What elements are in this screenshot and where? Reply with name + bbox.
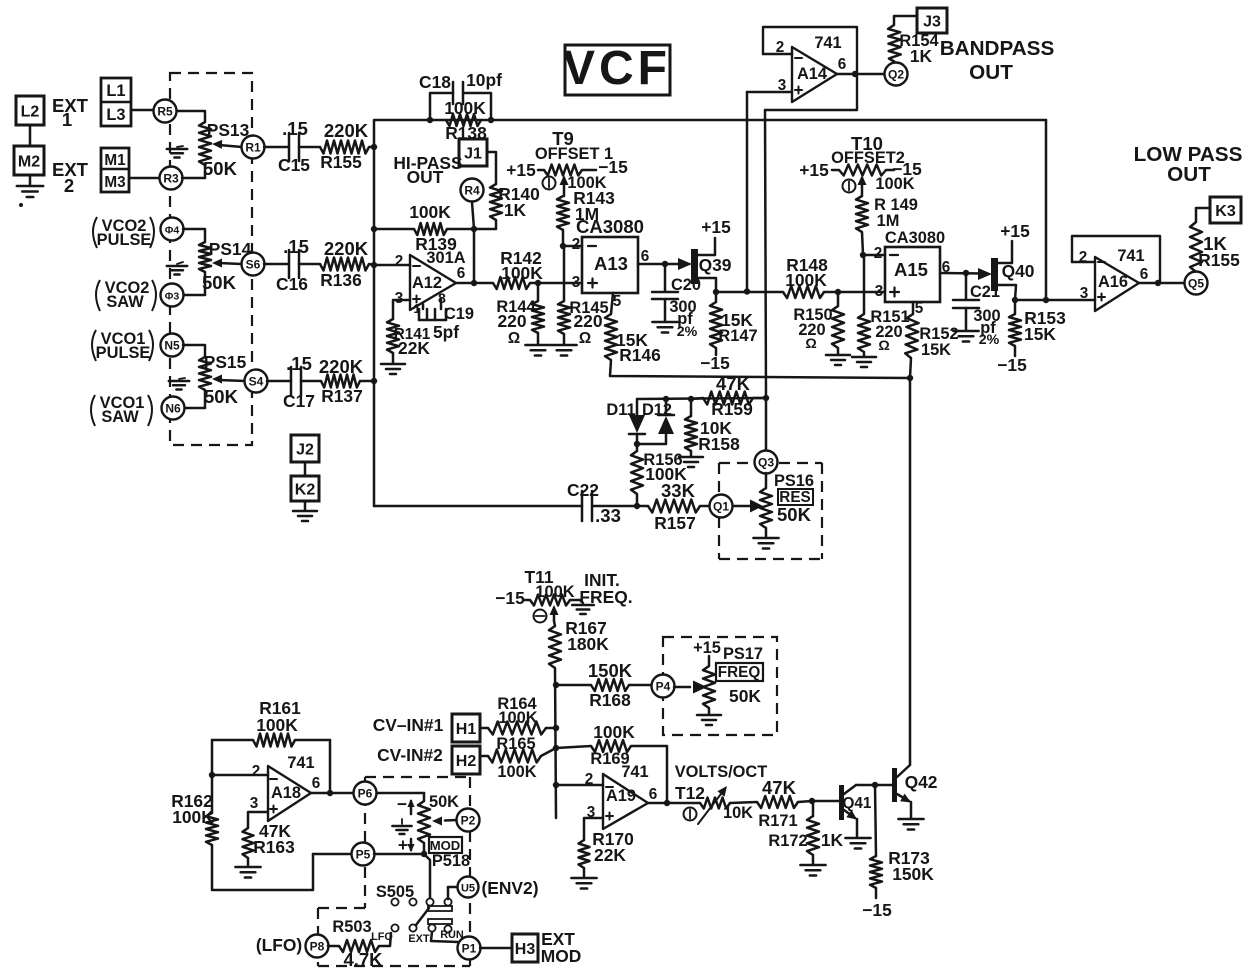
node M1/M3 (connector) <box>101 148 129 192</box>
node junction <box>744 288 750 294</box>
ground <box>401 819 403 824</box>
node junction <box>852 71 858 77</box>
svg-text:VOLTS/OCT: VOLTS/OCT <box>675 763 768 781</box>
svg-text:P8: P8 <box>310 940 325 954</box>
node junction <box>371 144 377 150</box>
wire <box>369 264 374 265</box>
svg-text:−15: −15 <box>495 588 525 608</box>
svg-text:6: 6 <box>838 56 847 73</box>
node junction <box>963 270 969 276</box>
transistor Q40 <box>978 268 992 280</box>
trimmer symbol <box>843 180 856 193</box>
svg-text:150K: 150K <box>588 660 633 681</box>
ground <box>863 352 866 356</box>
node PHI3 <box>161 284 184 307</box>
svg-text:3: 3 <box>395 290 404 307</box>
svg-text:PS16: PS16 <box>774 472 814 490</box>
switch contact <box>426 898 433 905</box>
node P6 <box>354 782 377 805</box>
resistor R169 100K <box>556 746 591 748</box>
resistor R140 1K <box>490 184 502 220</box>
svg-text:J2: J2 <box>296 441 314 458</box>
wiper arrow PS16 <box>733 505 752 508</box>
svg-text:100K: 100K <box>172 807 214 827</box>
svg-text:C16: C16 <box>276 274 308 294</box>
wire <box>183 272 205 295</box>
wire <box>570 599 580 602</box>
trimpot T12 10K <box>700 798 730 809</box>
wire <box>177 111 205 122</box>
node R4 <box>461 179 484 202</box>
switch bar <box>428 919 452 924</box>
svg-text:PULSE: PULSE <box>96 344 151 362</box>
capacitor C20 300pf <box>664 264 667 291</box>
node junction <box>634 503 640 509</box>
svg-text:.33: .33 <box>595 505 621 526</box>
svg-text:C22: C22 <box>567 480 599 500</box>
resistor R158 10K <box>690 399 693 416</box>
node P4 <box>652 675 675 698</box>
dashed module box (resonance) <box>719 462 753 464</box>
svg-text:741: 741 <box>814 34 841 52</box>
node junction <box>327 790 333 796</box>
switch contact <box>391 898 398 905</box>
svg-text:M2: M2 <box>18 153 40 170</box>
wire (feedback) <box>329 740 332 793</box>
svg-text:R136: R136 <box>320 270 362 290</box>
svg-text:A16: A16 <box>1098 273 1128 291</box>
wire <box>448 886 458 889</box>
svg-text:L3: L3 <box>106 106 125 124</box>
trimpot T10 100K <box>839 165 886 176</box>
svg-text:CA3080: CA3080 <box>885 229 945 247</box>
node junction <box>860 252 866 258</box>
svg-text:+15: +15 <box>1000 221 1030 241</box>
potentiometer PS17 50K <box>703 666 715 708</box>
wire <box>765 398 768 451</box>
wire <box>475 220 496 229</box>
wire (A19 out) <box>648 802 700 805</box>
node K2 (connector) <box>291 476 319 501</box>
wire <box>480 947 512 950</box>
svg-text:50K: 50K <box>429 793 459 811</box>
node junction <box>209 772 215 778</box>
svg-text:R157: R157 <box>654 513 696 533</box>
svg-text:3: 3 <box>875 283 884 300</box>
svg-text:H2: H2 <box>456 753 477 770</box>
svg-text:M3: M3 <box>104 174 125 191</box>
wire (left summing bus) <box>374 120 1046 147</box>
wire <box>562 230 565 246</box>
node S4 <box>245 370 268 393</box>
op-amp U A13 CA3080 <box>582 237 638 293</box>
svg-text:OUT: OUT <box>407 167 444 187</box>
svg-text:220K: 220K <box>319 356 364 377</box>
resistor R170 22K <box>579 840 590 868</box>
svg-text:5: 5 <box>915 300 924 317</box>
node P8 <box>306 935 329 958</box>
ground <box>177 146 183 147</box>
ground <box>29 175 32 185</box>
node junction <box>488 117 494 123</box>
node junction <box>553 745 559 751</box>
svg-text:R172: R172 <box>768 832 807 850</box>
op-amp A12 301A <box>410 255 456 310</box>
wire <box>610 360 910 378</box>
switch contact <box>409 924 416 931</box>
svg-text:3: 3 <box>250 795 259 812</box>
svg-text:50K: 50K <box>202 272 237 293</box>
resistor R164 100K <box>488 722 546 735</box>
wire <box>29 125 32 146</box>
svg-text:1: 1 <box>62 109 72 130</box>
ground <box>765 528 768 537</box>
svg-text:2: 2 <box>1079 249 1088 266</box>
svg-text:R155: R155 <box>1198 250 1240 270</box>
svg-text:R3: R3 <box>163 172 179 186</box>
wire (left summing bus lower) <box>373 147 376 506</box>
resistor R138 100K <box>446 114 481 126</box>
resistor R143 1M <box>557 196 569 230</box>
wire <box>824 291 885 294</box>
potentiometer PS14 <box>199 242 211 272</box>
capacitor C15 <box>288 133 291 161</box>
node H1 (connector) <box>452 714 480 742</box>
wire <box>182 165 205 178</box>
node M2 (connector) <box>14 146 44 175</box>
capacitor C22 .33 <box>581 491 584 521</box>
node Q3 <box>755 451 778 474</box>
resistor R153 15K <box>1014 300 1017 314</box>
op-amp A14 741 <box>763 27 857 110</box>
svg-text:+15: +15 <box>693 639 721 657</box>
svg-text:150K: 150K <box>892 864 934 884</box>
svg-text:R4: R4 <box>464 184 480 198</box>
resistor R171 47K <box>757 796 798 808</box>
svg-text:R503: R503 <box>332 918 371 936</box>
svg-text:A14: A14 <box>797 65 828 83</box>
node R3 <box>160 167 183 190</box>
resistor R144 220 <box>532 301 544 333</box>
wire <box>487 152 496 184</box>
wire <box>894 16 917 25</box>
node junction <box>1043 297 1049 303</box>
resistor R155b 1K <box>1190 222 1202 272</box>
label MOD box <box>429 837 462 853</box>
power -15 <box>1014 346 1017 356</box>
power -15 <box>875 888 878 898</box>
svg-text:Ω: Ω <box>508 330 520 347</box>
wire (pin5) <box>912 302 915 314</box>
svg-text:P2: P2 <box>461 814 476 828</box>
svg-text:C17: C17 <box>283 391 315 411</box>
switch actuator <box>416 908 429 925</box>
resistor R168 150K <box>556 684 591 687</box>
node U5 <box>458 877 479 898</box>
svg-text:.15: .15 <box>283 236 309 257</box>
svg-text:C18: C18 <box>419 72 451 92</box>
resistor R150 220 <box>837 292 840 306</box>
svg-text:BANDPASS: BANDPASS <box>940 37 1055 60</box>
wire <box>374 853 424 856</box>
wire <box>1196 208 1210 222</box>
svg-text:22K: 22K <box>398 338 430 358</box>
svg-text:33K: 33K <box>661 480 696 501</box>
ground <box>392 353 395 363</box>
dashed module box (mod routing) <box>365 776 470 778</box>
svg-text:J1: J1 <box>464 145 482 162</box>
wire <box>360 380 374 383</box>
svg-text:H3: H3 <box>515 941 536 958</box>
svg-text:100K: 100K <box>875 175 914 193</box>
svg-text:S505: S505 <box>376 883 414 901</box>
node junction <box>553 782 559 788</box>
resistor R503 4.7K <box>339 940 379 952</box>
wire <box>301 380 321 383</box>
svg-text:A12: A12 <box>412 274 442 292</box>
wire <box>183 229 205 242</box>
node junction <box>427 117 433 123</box>
wire <box>379 933 391 946</box>
wiper arrow PS17 <box>674 686 690 689</box>
svg-text:C19: C19 <box>444 305 474 323</box>
node L2 (connector) <box>16 96 44 125</box>
svg-text:+15: +15 <box>701 217 731 237</box>
svg-text:T12: T12 <box>675 783 705 803</box>
svg-text:+15: +15 <box>506 160 536 180</box>
svg-text:H1: H1 <box>456 721 477 738</box>
svg-text:Q3: Q3 <box>758 456 774 470</box>
node junction <box>809 798 815 804</box>
svg-text:R171: R171 <box>758 812 797 830</box>
node R5 <box>154 100 177 123</box>
svg-text:P518: P518 <box>432 852 470 870</box>
svg-text:MOD: MOD <box>430 838 461 853</box>
wiper arrow PS15 <box>219 380 245 381</box>
potentiometer PS13 <box>199 122 211 165</box>
svg-text:5: 5 <box>613 293 622 310</box>
svg-text:3: 3 <box>572 274 581 291</box>
node junction <box>763 395 769 401</box>
wiper arrow <box>553 608 556 621</box>
wire <box>480 727 488 730</box>
svg-text:Ω: Ω <box>579 330 591 347</box>
svg-text:2: 2 <box>395 253 404 270</box>
node K3 (connector) <box>1210 197 1241 223</box>
ground <box>690 451 693 456</box>
svg-text:1M: 1M <box>877 212 900 230</box>
wire <box>541 748 556 756</box>
svg-text:1K: 1K <box>504 200 527 220</box>
svg-text:1K: 1K <box>910 46 933 66</box>
svg-text:Q41: Q41 <box>843 795 872 812</box>
wire (pin3) <box>584 818 603 840</box>
svg-text:−15: −15 <box>997 355 1027 375</box>
resistor R163 47K <box>243 828 254 858</box>
svg-text:100K: 100K <box>593 722 635 742</box>
node N5 <box>161 334 184 357</box>
title box VCF <box>565 45 670 95</box>
svg-text:A18: A18 <box>271 784 301 802</box>
svg-text:2: 2 <box>572 236 581 253</box>
svg-text:220: 220 <box>497 311 526 331</box>
svg-text:2%: 2% <box>677 324 698 340</box>
svg-text:(ENV2): (ENV2) <box>481 878 538 898</box>
wire <box>1015 299 1095 302</box>
node junction <box>371 226 377 232</box>
node junction <box>553 682 559 688</box>
resistor R136 220K <box>320 258 369 271</box>
svg-text:Q5: Q5 <box>1188 277 1204 291</box>
svg-text:50K: 50K <box>204 386 239 407</box>
node junction <box>371 378 377 384</box>
ground <box>247 858 250 866</box>
wire (pin2) <box>563 245 582 248</box>
node junction <box>663 396 669 402</box>
node L1/L3 (connector) <box>101 78 131 126</box>
node PHI4 <box>161 218 184 241</box>
svg-text:P5: P5 <box>356 848 371 862</box>
svg-text:P1: P1 <box>462 942 477 956</box>
svg-text:PULSE: PULSE <box>97 231 152 249</box>
wire <box>212 845 313 890</box>
svg-text:Ω: Ω <box>805 336 816 352</box>
wiper arrow PS14 <box>219 263 241 264</box>
capacitor C21 300pf <box>965 273 968 299</box>
svg-text:100K: 100K <box>497 763 536 781</box>
svg-text:+15: +15 <box>799 160 829 180</box>
node junction <box>471 226 477 232</box>
op-amp A18 741 <box>268 766 311 821</box>
capacitor C17 <box>290 367 293 395</box>
svg-text:+: + <box>398 835 408 855</box>
ground <box>580 600 583 603</box>
dashed module box (input pots) <box>170 73 252 445</box>
node junction <box>634 441 640 447</box>
wire <box>730 802 757 803</box>
resistor R149 1M <box>856 196 868 232</box>
wire (pin2) <box>556 784 603 787</box>
svg-text:2: 2 <box>64 175 74 196</box>
svg-text:Q42: Q42 <box>905 772 938 792</box>
wire <box>267 380 291 383</box>
wire (CV bus) <box>555 668 556 818</box>
svg-text:C21: C21 <box>970 283 1000 301</box>
dashed module box (freq pot) <box>663 637 777 735</box>
switch contact <box>444 898 451 905</box>
power -15 <box>886 169 894 172</box>
node junction <box>664 800 670 806</box>
wire (R151 drop) <box>863 255 866 314</box>
svg-text:(LFO): (LFO) <box>256 935 302 955</box>
node junction <box>713 289 719 295</box>
resistor R152 15K <box>905 314 918 358</box>
ground <box>837 348 840 354</box>
ground <box>708 708 711 714</box>
svg-text:47K: 47K <box>716 373 751 394</box>
svg-text:K2: K2 <box>295 481 316 498</box>
wire (A14 +in drop) <box>746 92 749 291</box>
trimpot T9 100K <box>544 165 582 176</box>
label FREQ box <box>716 663 763 681</box>
svg-text:.15: .15 <box>282 118 308 139</box>
svg-text:100K: 100K <box>444 98 486 118</box>
trimmer symbol <box>543 177 556 190</box>
svg-text:.15: .15 <box>286 353 312 374</box>
svg-text:100K: 100K <box>785 270 827 290</box>
svg-text:OUT: OUT <box>1167 163 1211 186</box>
svg-text:M1: M1 <box>104 152 126 169</box>
svg-text:15K: 15K <box>1024 324 1056 344</box>
node H3 (connector) <box>512 934 538 962</box>
svg-text:A13: A13 <box>594 253 628 274</box>
transistor Q41 <box>812 800 839 803</box>
wire <box>447 887 450 899</box>
resistor R159 47K <box>691 398 703 399</box>
svg-text:15K: 15K <box>921 341 951 359</box>
power -15 <box>582 169 596 172</box>
resistor R141 22K <box>387 319 399 353</box>
svg-text:6: 6 <box>312 775 321 792</box>
switch bar S505 <box>428 906 452 911</box>
wire (pin2) <box>374 264 410 267</box>
resistor R137 220K <box>321 375 360 388</box>
wire <box>264 146 289 149</box>
node R1 <box>242 136 265 159</box>
svg-text:50K: 50K <box>203 158 238 179</box>
svg-text:PS15: PS15 <box>204 352 247 372</box>
wire <box>473 229 476 283</box>
svg-text:4.7K: 4.7K <box>343 949 383 970</box>
svg-text:U5: U5 <box>461 883 475 895</box>
wire (pin3) <box>747 91 792 94</box>
node junction <box>371 262 377 268</box>
wire (pin2) <box>863 254 885 257</box>
wire (pin3) <box>393 300 410 319</box>
svg-text:6: 6 <box>1140 266 1149 283</box>
svg-text:50K: 50K <box>777 504 812 525</box>
resistor R155 220K <box>320 141 369 154</box>
wiper arrow <box>861 178 864 196</box>
svg-text:VCF: VCF <box>563 42 671 95</box>
svg-text:220: 220 <box>573 311 602 331</box>
svg-text:10pf: 10pf <box>466 70 502 90</box>
diode D11 <box>636 399 639 415</box>
ground <box>179 378 185 379</box>
resistor R139 100K <box>374 228 414 231</box>
wire (A16 out) <box>1139 282 1185 285</box>
svg-text:Ω: Ω <box>878 338 889 354</box>
svg-text:741: 741 <box>621 763 648 781</box>
wire <box>862 232 863 255</box>
svg-text:CA3080: CA3080 <box>576 216 644 237</box>
trimmer symbol <box>534 610 547 623</box>
svg-text:2: 2 <box>252 763 261 780</box>
potentiometer PS15 <box>199 357 211 390</box>
wire (feedback drop) <box>765 110 766 398</box>
svg-text:SAW: SAW <box>101 408 139 426</box>
node junction <box>1155 280 1161 286</box>
svg-text:S6: S6 <box>246 258 261 272</box>
svg-text:R159: R159 <box>711 399 753 419</box>
svg-text:1K: 1K <box>821 830 844 850</box>
wire (pin2) <box>763 53 792 56</box>
svg-text:L2: L2 <box>21 103 40 120</box>
resistor R165 100K <box>488 750 541 763</box>
switch contact <box>409 898 416 905</box>
node junction <box>662 261 668 267</box>
op-amp A16 741 <box>1072 236 1160 283</box>
